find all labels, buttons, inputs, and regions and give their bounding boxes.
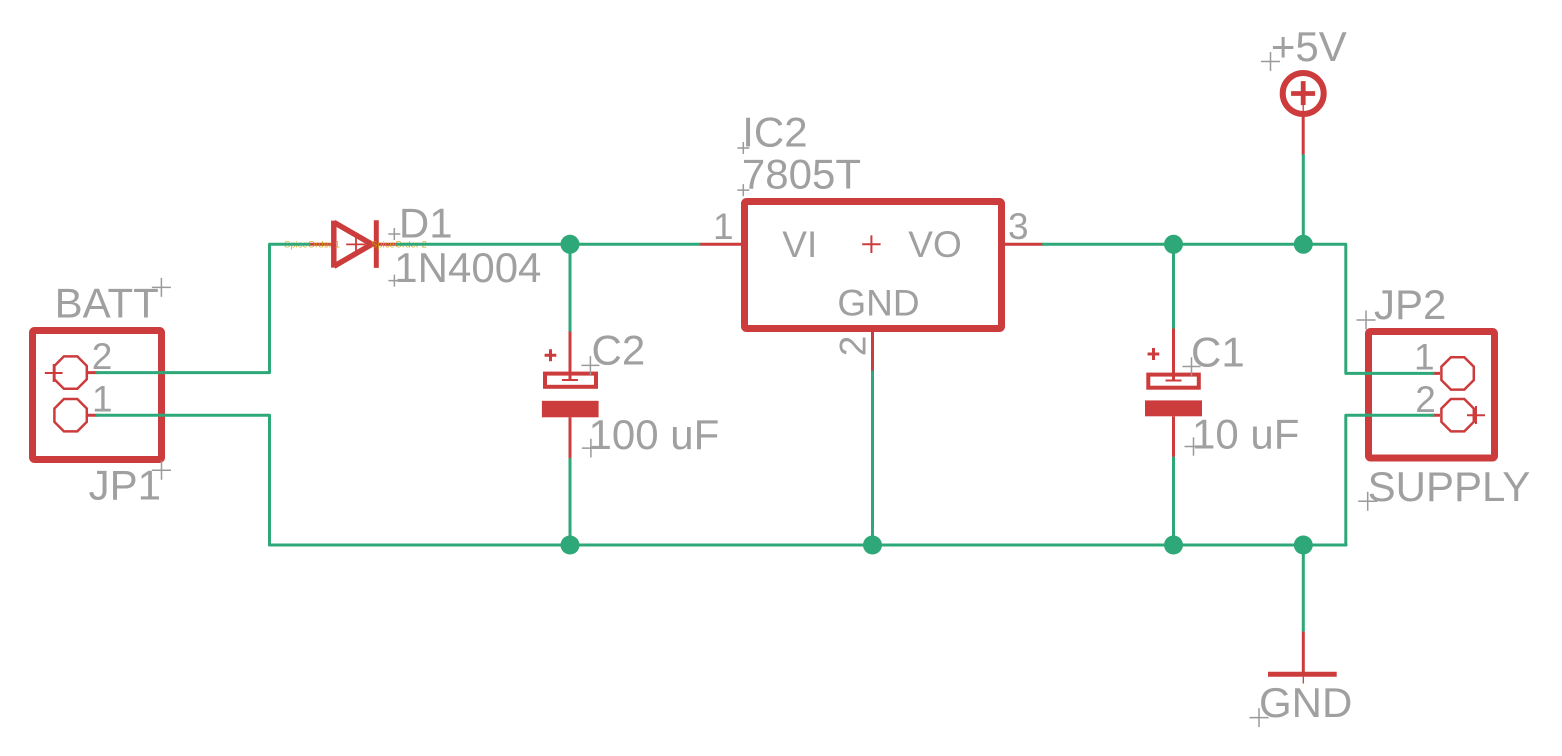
svg-text:7805T: 7805T bbox=[742, 151, 861, 198]
svg-text:BATT: BATT bbox=[55, 280, 159, 327]
svg-text:GND: GND bbox=[837, 282, 919, 323]
svg-text:VI: VI bbox=[782, 224, 817, 265]
svg-text:SUPPLY: SUPPLY bbox=[1368, 463, 1531, 510]
svg-text:GND: GND bbox=[1259, 679, 1352, 726]
svg-text:+5V: +5V bbox=[1271, 23, 1347, 70]
svg-text:1: 1 bbox=[713, 206, 734, 247]
svg-text:2: 2 bbox=[92, 336, 113, 377]
svg-text:2: 2 bbox=[833, 336, 874, 357]
svg-text:1: 1 bbox=[1414, 337, 1435, 378]
svg-text:2: 2 bbox=[1415, 379, 1436, 420]
svg-text:C2: C2 bbox=[592, 327, 646, 374]
svg-text:10 uF: 10 uF bbox=[1192, 410, 1299, 457]
svg-text:100 uF: 100 uF bbox=[589, 411, 720, 458]
svg-text:1N4004: 1N4004 bbox=[394, 244, 541, 291]
svg-text:JP2: JP2 bbox=[1374, 281, 1446, 328]
svg-text:JP1: JP1 bbox=[89, 462, 161, 509]
svg-text:IC2: IC2 bbox=[742, 109, 807, 156]
svg-text:C1: C1 bbox=[1191, 328, 1245, 375]
svg-text:D1: D1 bbox=[399, 200, 453, 247]
svg-text:1: 1 bbox=[92, 378, 113, 419]
svg-text:VO: VO bbox=[908, 224, 961, 265]
svg-text:3: 3 bbox=[1008, 206, 1029, 247]
